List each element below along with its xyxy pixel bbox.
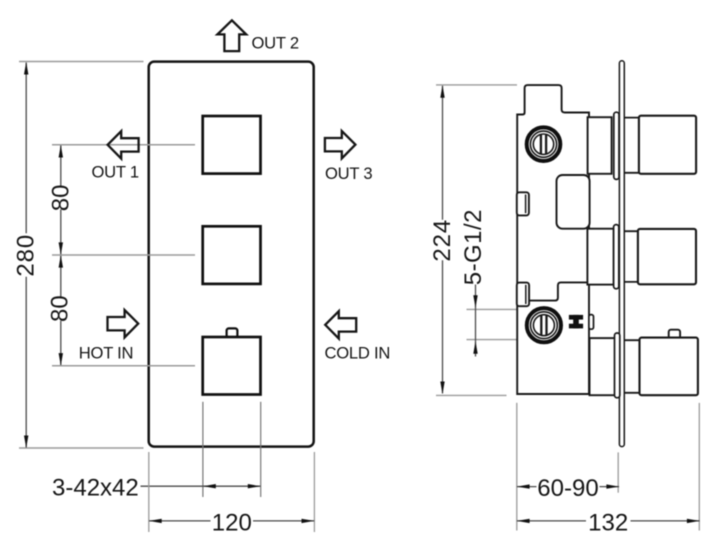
mounting tab 1 — [517, 192, 529, 215]
G1/2 arrowhead down — [473, 295, 477, 308]
volume inner circle — [533, 315, 554, 336]
arrowhead 280 top — [24, 62, 28, 75]
arrowhead pair at middle row — [59, 242, 63, 255]
knob 1 side — [639, 116, 696, 174]
extension line bottom 224 dim — [436, 394, 507, 396]
arrowhead 132 right — [687, 519, 700, 523]
knob square 1 — [203, 116, 261, 174]
svg-text:COLD IN: COLD IN — [325, 343, 391, 362]
flange 1 — [614, 112, 619, 179]
arrowhead 120 left — [149, 519, 162, 523]
G1/2 lower measure line — [467, 339, 518, 341]
thermostat inner circle — [533, 134, 553, 154]
dimension line 132 — [517, 520, 700, 522]
extension line bottom of 280 dim — [19, 447, 144, 449]
side bump right of block — [589, 315, 594, 330]
recess between valve stems — [557, 175, 590, 229]
arrowhead 224 top — [440, 85, 444, 98]
dimension line 280 — [25, 63, 27, 448]
knob 3 tab — [669, 330, 680, 339]
flange 2 — [614, 225, 619, 289]
svg-text:60-90: 60-90 — [537, 475, 598, 502]
G1/2 arrow line — [475, 285, 477, 357]
extension line top of 280 dim — [19, 61, 144, 63]
extension line right 42 dim — [260, 402, 262, 497]
dimension line 60-90 — [517, 486, 619, 488]
arrow OUT 1 — [108, 131, 139, 158]
arrowhead 60-90 right — [606, 484, 619, 488]
svg-text:3-42x42: 3-42x42 — [52, 474, 139, 501]
extension line left 120 dim — [148, 452, 150, 532]
leader and dim line 42 — [141, 485, 261, 487]
arrowhead 120 right — [302, 519, 315, 523]
arrow OUT 2 — [217, 20, 246, 51]
arrowhead 80 top — [59, 145, 63, 158]
neck 1 lines — [625, 118, 639, 173]
center line middle row — [52, 254, 195, 256]
neck 2 lines — [625, 231, 639, 282]
wall plate edge-on — [619, 61, 624, 447]
G1/2 upper measure line — [467, 308, 518, 310]
svg-text:132: 132 — [588, 509, 628, 536]
knob square 2 — [203, 226, 261, 284]
extension line left 60-90/132 — [516, 403, 518, 531]
G1/2 arrowhead up — [473, 341, 477, 354]
volume circle outer — [527, 308, 561, 342]
svg-text:280: 280 — [13, 234, 40, 277]
extension line top 224 dim — [436, 84, 517, 86]
knob 3 side — [640, 338, 698, 396]
arrow HOT IN — [108, 310, 139, 337]
hot marking H — [569, 315, 583, 320]
mounting tab 2 — [517, 283, 529, 307]
extension line right 60-90 — [617, 452, 619, 492]
svg-text:HOT IN: HOT IN — [79, 343, 133, 362]
svg-text:5-G1/2: 5-G1/2 — [460, 209, 487, 285]
dimension line 224 — [442, 86, 444, 394]
valve stem 1 — [588, 117, 612, 174]
arrowhead 132 left — [517, 519, 530, 523]
arrow COLD IN — [325, 311, 356, 338]
dimension line 120 — [149, 520, 314, 522]
thermostat circle outer — [527, 127, 561, 161]
volume screw slot — [540, 315, 542, 335]
temp tab on square 3 — [227, 328, 238, 337]
block top edge — [517, 282, 589, 305]
knob square 3 — [203, 337, 261, 395]
svg-text:120: 120 — [212, 509, 252, 536]
volume mid ring — [531, 312, 558, 339]
arrowhead 42 left — [203, 484, 216, 488]
neck 3 lines — [625, 340, 640, 393]
svg-text:80: 80 — [46, 295, 73, 322]
arrowhead 224 bottom — [440, 382, 444, 395]
svg-text:80: 80 — [47, 184, 74, 211]
svg-text:OUT 2: OUT 2 — [252, 33, 299, 52]
thermostat screw slot — [540, 135, 542, 154]
tab 2 inner line — [525, 285, 527, 304]
valve stem 2 — [587, 229, 613, 285]
svg-text:224: 224 — [429, 219, 456, 262]
extension line right 120 dim — [313, 452, 315, 532]
faceplate front view — [149, 62, 314, 447]
svg-text:OUT 3: OUT 3 — [325, 164, 372, 183]
arrowhead 280 bottom — [24, 436, 28, 449]
arrowhead 80 bottom — [59, 353, 63, 366]
center line OUT1 row — [52, 144, 195, 146]
thermostat mid ring — [530, 131, 556, 157]
knob 2 side — [638, 229, 696, 284]
extension line left 42 dim — [202, 402, 204, 497]
center line HOT row — [52, 365, 195, 367]
flange 3 — [615, 333, 620, 398]
arrowhead 60-90 left — [517, 484, 530, 488]
svg-text:OUT 1: OUT 1 — [92, 162, 139, 181]
arrow OUT 3 — [325, 131, 356, 158]
dimension line 80/80 — [60, 145, 62, 365]
valve body outline (side view) — [517, 85, 589, 394]
arrowhead 42 right — [248, 484, 261, 488]
valve stem 3 — [590, 338, 616, 395]
extension line right 132 — [698, 403, 700, 531]
tab 1 inner line — [525, 195, 527, 214]
